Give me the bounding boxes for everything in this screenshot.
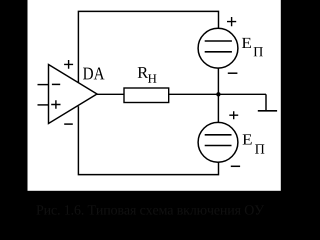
wire: resistor to node A and to ground corner [169,93,266,95]
E2 label [243,134,252,144]
op-amp negative supply minus sign [64,123,73,125]
wire: E1 bottom to node A [217,68,219,94]
ground [258,94,277,111]
source E2 (lower) [198,111,264,166]
op-amp input plus sign [51,100,60,109]
resistor R_H body [124,67,169,102]
E1 plus sign [227,17,236,26]
wire: node A down to E2 top [217,94,219,122]
node A junction dot [216,92,220,96]
wire: inverting input stub [38,84,49,86]
op-amp label DA [83,68,104,80]
E1 minus sign [228,72,238,74]
op-amp DA triangle [38,65,98,124]
E1 label [242,38,251,48]
white schematic panel [28,0,281,191]
source E1 (upper) [198,17,263,73]
wire: op-amp output to resistor [97,93,124,95]
wire: non-inverting input stub [38,104,49,106]
wire: positive supply rail (triangle top edge up, across top, down to E1) [78,11,218,82]
caption [36,205,264,214]
op-amp positive supply plus sign [64,60,73,69]
wire: negative supply rail (triangle bottom edge down, across bottom, up to E2) [78,106,218,174]
resistor value label R_H [138,67,149,78]
op-amp input minus sign [52,83,60,85]
E2 plus sign [229,111,238,119]
E2 minus sign [231,165,240,167]
